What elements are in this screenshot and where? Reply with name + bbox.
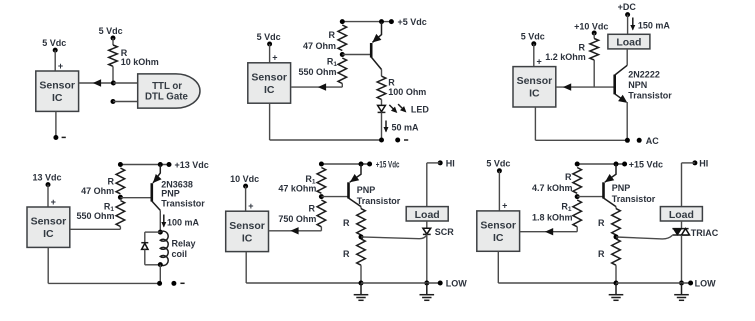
minus terminal [171,281,184,286]
terminal LOW [438,278,468,288]
wire Sensor IC minus to rail [270,103,382,140]
svg-text:100 Ohm: 100 Ohm [388,87,426,97]
svg-text:47 Ohm: 47 Ohm [81,186,114,196]
svg-text:SCR: SCR [435,227,455,237]
node emitter rail junction [379,19,384,24]
svg-text:+DC: +DC [618,2,637,12]
rail +5 Vdc [342,21,391,23]
signal arrow into Sensor IC [290,227,298,234]
wire emitter to AC rail [626,102,628,140]
ground at LOW [674,283,689,300]
svg-text:10 Vdc: 10 Vdc [230,174,259,184]
signal arrow into Sensor IC [93,79,101,86]
resistor R1 550 Ohm [76,201,124,227]
svg-text:R: R [309,204,316,214]
svg-text:Transistor: Transistor [628,91,672,101]
load block [406,207,448,221]
Sensor IC [248,63,291,103]
resistor R1 1.8 kOhm [532,200,582,227]
rail +15 Vdc [321,163,369,165]
node resistor R top [118,162,123,167]
svg-text:4.7 kOhm: 4.7 kOhm [532,183,573,193]
wire node to gate input 1 [113,82,137,84]
wire R to Sensor IC output [269,227,322,231]
svg-text:+5 Vdc: +5 Vdc [398,17,427,27]
svg-text:IC: IC [264,84,275,96]
wire relay to rail [159,265,161,284]
svg-text:R: R [579,43,586,53]
svg-text:+: + [248,201,253,211]
transistor Q1 2N2222 NPN [615,65,673,103]
supply terminal 5 Vdc [257,32,281,47]
node emitter rail junction [158,162,163,167]
terminal +13 Vdc [167,160,209,170]
svg-text:R: R [343,218,350,228]
svg-text:5 Vdc: 5 Vdc [257,32,281,42]
wire Sensor IC minus to rail [498,251,616,283]
svg-text:LED: LED [411,104,430,114]
signal arrow into Sensor IC [318,83,326,90]
wire R1 to Sensor IC output [520,227,578,232]
wire junction to base [342,54,371,56]
signal arrow into Sensor IC [545,228,553,235]
resistor R lower [343,239,365,265]
svg-text:TRIAC: TRIAC [691,228,719,238]
svg-text:Load: Load [415,209,440,221]
node emitter rail junction [625,138,630,143]
svg-text:1.2 kOhm: 1.2 kOhm [545,52,586,62]
wire +10 Vdc to resistor [593,33,595,39]
svg-text:Sensor: Sensor [39,80,75,92]
svg-text:coil: coil [172,249,188,259]
svg-text:+: + [51,197,56,207]
svg-text:LOW: LOW [695,278,716,288]
svg-text:+15 Vdc: +15 Vdc [629,159,663,169]
ground [609,283,624,300]
svg-text:5 Vdc: 5 Vdc [42,38,66,48]
svg-text:R: R [343,249,350,259]
node base divider junction [118,195,123,200]
wire TRIAC to LOW rail [681,235,683,283]
svg-text:+: + [58,61,63,71]
node rail junction [157,281,162,286]
terminal +15 Vdc [622,159,663,169]
wire HI to Load [427,163,440,207]
Sensor IC [513,67,556,107]
svg-text:Sensor: Sensor [251,71,287,83]
node emitter rail junction [614,162,619,167]
svg-text:47 kOhm: 47 kOhm [278,184,316,194]
resistor R1 47 kOhm [278,168,325,194]
node base divider junction [340,52,345,57]
wire rail to LOW terminal [616,282,691,284]
svg-text:Sensor: Sensor [229,220,265,232]
svg-text:HI: HI [699,158,708,168]
supply terminal 5 Vdc (pull-up) [99,26,123,41]
svg-text:+10 Vdc: +10 Vdc [574,21,608,31]
plus polarity mark [502,201,507,211]
load block [660,207,702,221]
SCR Q2 [423,227,454,237]
terminal HI [692,158,708,168]
supply terminal 13 Vdc [32,172,61,187]
svg-text:Transistor: Transistor [357,196,401,206]
node emitter rail junction [359,162,364,167]
gate U1 TTL or DTL [138,74,200,108]
node resistor R1 top [319,162,324,167]
svg-text:Transistor: Transistor [161,199,205,209]
minus terminal [53,135,65,140]
node gate junction [359,234,364,239]
svg-text:50 mA: 50 mA [392,122,420,132]
resistor R lower [598,239,620,265]
wire Load to collector [626,49,628,65]
svg-text:IC: IC [43,228,54,240]
wire collector to relay / 100 mA [160,210,199,232]
gate input 2 terminal [111,99,116,104]
plus polarity mark [58,61,63,71]
wire Sensor IC minus to rail [48,247,159,283]
wire R to ground rail [360,265,362,283]
flyback diode D1 [141,232,160,265]
LED D1 [378,104,430,114]
wire +DC to Load / 150 mA [628,15,671,35]
wire collector to resistor [381,70,383,77]
svg-text:Sensor: Sensor [31,216,67,228]
svg-text:+13 Vdc: +13 Vdc [175,160,209,170]
svg-text:AC: AC [646,136,659,146]
rail +15 Vdc [577,163,624,165]
svg-text:100 mA: 100 mA [167,217,200,227]
svg-text:5 Vdc: 5 Vdc [99,26,123,36]
resistor R 1.2 kOhm [545,39,598,63]
svg-text:550 Ohm: 550 Ohm [76,211,114,221]
terminal AC [637,136,660,146]
svg-text:+15 Vdc: +15 Vdc [376,160,400,170]
svg-text:+: + [536,56,541,66]
wire collector to divider [360,207,362,209]
signal arrow into Sensor IC [563,83,571,90]
wire junction to base [120,197,151,199]
svg-text:IC: IC [493,232,504,244]
svg-text:NPN: NPN [628,80,647,90]
transistor Q1 PNP [371,22,381,70]
svg-text:TTL or: TTL or [152,81,182,92]
wire Sensor IC minus to rail [535,107,627,140]
node output junction [111,81,116,86]
svg-text:IC: IC [52,92,63,104]
resistor R upper [343,209,365,235]
svg-text:R: R [565,172,572,182]
supply terminal 5 Vdc [521,32,545,47]
svg-text:+: + [502,201,507,211]
relay coil L1 [160,231,195,265]
svg-text:Transistor: Transistor [612,194,656,204]
wire Load to TRIAC [681,221,683,229]
svg-text:5 Vdc: 5 Vdc [521,32,545,42]
svg-text:47 Ohm: 47 Ohm [303,41,336,51]
rail +13 Vdc [120,164,169,166]
wire supply to resistor R [112,38,114,45]
TRIAC Q2 [672,228,718,238]
minus terminal [395,138,408,143]
transistor Q1 2N3638 PNP [152,165,206,211]
Sensor IC [226,211,269,251]
wire supply to Sensor IC + [47,185,49,207]
resistor R 10 kOhm [109,45,159,67]
supply terminal +10 Vdc [574,21,608,35]
resistor R 750 Ohm [278,200,325,227]
svg-text:R: R [598,249,605,259]
svg-text:PNP: PNP [161,188,180,198]
ground at LOW [420,283,435,300]
svg-text:R: R [329,30,336,40]
wire output node to Sensor IC [79,82,114,84]
wire TRIAC gate [616,235,672,239]
wire supply to Sensor IC + [54,50,56,71]
svg-text:IC: IC [529,88,540,100]
svg-text:5 Vdc: 5 Vdc [486,159,510,169]
wire LED to rail / 50 mA [382,112,420,140]
wire collector to divider [615,207,617,209]
svg-text:550 Ohm: 550 Ohm [298,67,336,77]
terminal +5 Vdc [389,17,427,27]
wire Sensor IC minus to rail [246,252,361,283]
wire gate input 2 [113,101,138,103]
svg-text:IC: IC [242,232,253,244]
wire rail to LOW terminal [361,282,440,284]
wire junction to base [577,196,603,198]
plus polarity mark [272,53,277,63]
svg-text:Relay: Relay [172,238,196,248]
resistor R upper [598,209,620,235]
wire HI to Load [682,163,695,207]
wire resistor to LED [381,99,383,105]
node LOW rail junction [679,281,684,286]
svg-text:10 kOhm: 10 kOhm [121,57,159,67]
supply terminal 10 Vdc [230,174,259,189]
svg-text:13 Vdc: 13 Vdc [32,172,61,182]
wire SCR gate [361,235,427,239]
terminal +15 Vdc [367,160,399,170]
resistor R1 550 Ohm [298,57,346,84]
transistor Q1 PNP [349,164,401,207]
wire supply to Sensor IC + [533,44,535,67]
supply terminal 5 Vdc [486,159,510,174]
svg-text:R1: R1 [561,202,572,214]
wire R1 to Sensor IC output [70,227,121,230]
resistor R 100 Ohm [377,76,426,99]
wire Load to SCR [426,221,428,228]
wire supply to Sensor IC + [245,186,247,211]
svg-text:1.8 kOhm: 1.8 kOhm [532,213,573,223]
resistor R 47 Ohm [81,168,125,196]
plus polarity mark [248,201,253,211]
svg-text:PNP: PNP [357,185,376,195]
node resistor R top [340,19,345,24]
svg-text:HI: HI [446,158,455,168]
node base divider junction [575,194,580,199]
node ground rail junction [359,281,364,286]
node relay bottom junction [158,262,163,267]
supply terminal 5 Vdc [42,38,66,53]
supply terminal +DC [618,2,637,17]
resistor R 47 Ohm [303,25,347,51]
wire R1 to Sensor IC output [291,84,342,88]
wire junction to base [321,196,348,198]
svg-text:R: R [598,218,605,228]
svg-text:Load: Load [616,37,641,49]
ground [354,283,369,300]
terminal LOW [688,278,716,288]
node gate junction [614,234,619,239]
node relay top junction [158,230,163,235]
transistor Q1 PNP [604,164,656,207]
svg-text:Sensor: Sensor [480,220,516,232]
Sensor IC [477,211,520,251]
plus polarity mark [51,197,56,207]
svg-text:LOW: LOW [446,278,467,288]
wire supply to Sensor IC + [498,171,500,211]
wire SCR cathode to LOW rail [426,234,428,283]
node LED return junction [379,138,384,143]
terminal HI [438,158,455,168]
svg-text:150 mA: 150 mA [638,21,671,31]
svg-text:Sensor: Sensor [517,75,553,87]
node LOW rail junction [424,281,429,286]
svg-text:PNP: PNP [612,183,631,193]
node resistor R top [575,162,580,167]
plus polarity mark [536,56,541,66]
Sensor IC [27,207,70,247]
wire supply to Sensor IC + [269,44,271,63]
resistor R 4.7 kOhm [532,168,582,194]
svg-text:Load: Load [669,209,694,221]
node base divider junction [319,194,324,199]
wire Sensor IC minus lead [55,111,57,137]
load block [608,34,650,49]
svg-text:750 Ohm: 750 Ohm [278,214,316,224]
wire base node to Sensor IC [556,86,615,88]
svg-text:R: R [108,176,115,186]
svg-text:DTL Gate: DTL Gate [145,91,188,102]
svg-text:+: + [272,53,277,63]
svg-text:2N2222: 2N2222 [628,69,660,79]
wire resistor to base node [593,60,595,87]
wire resistor to output node [112,66,114,83]
node ground rail junction [614,281,619,286]
Sensor IC [36,71,79,111]
wire R to ground rail [615,265,617,283]
